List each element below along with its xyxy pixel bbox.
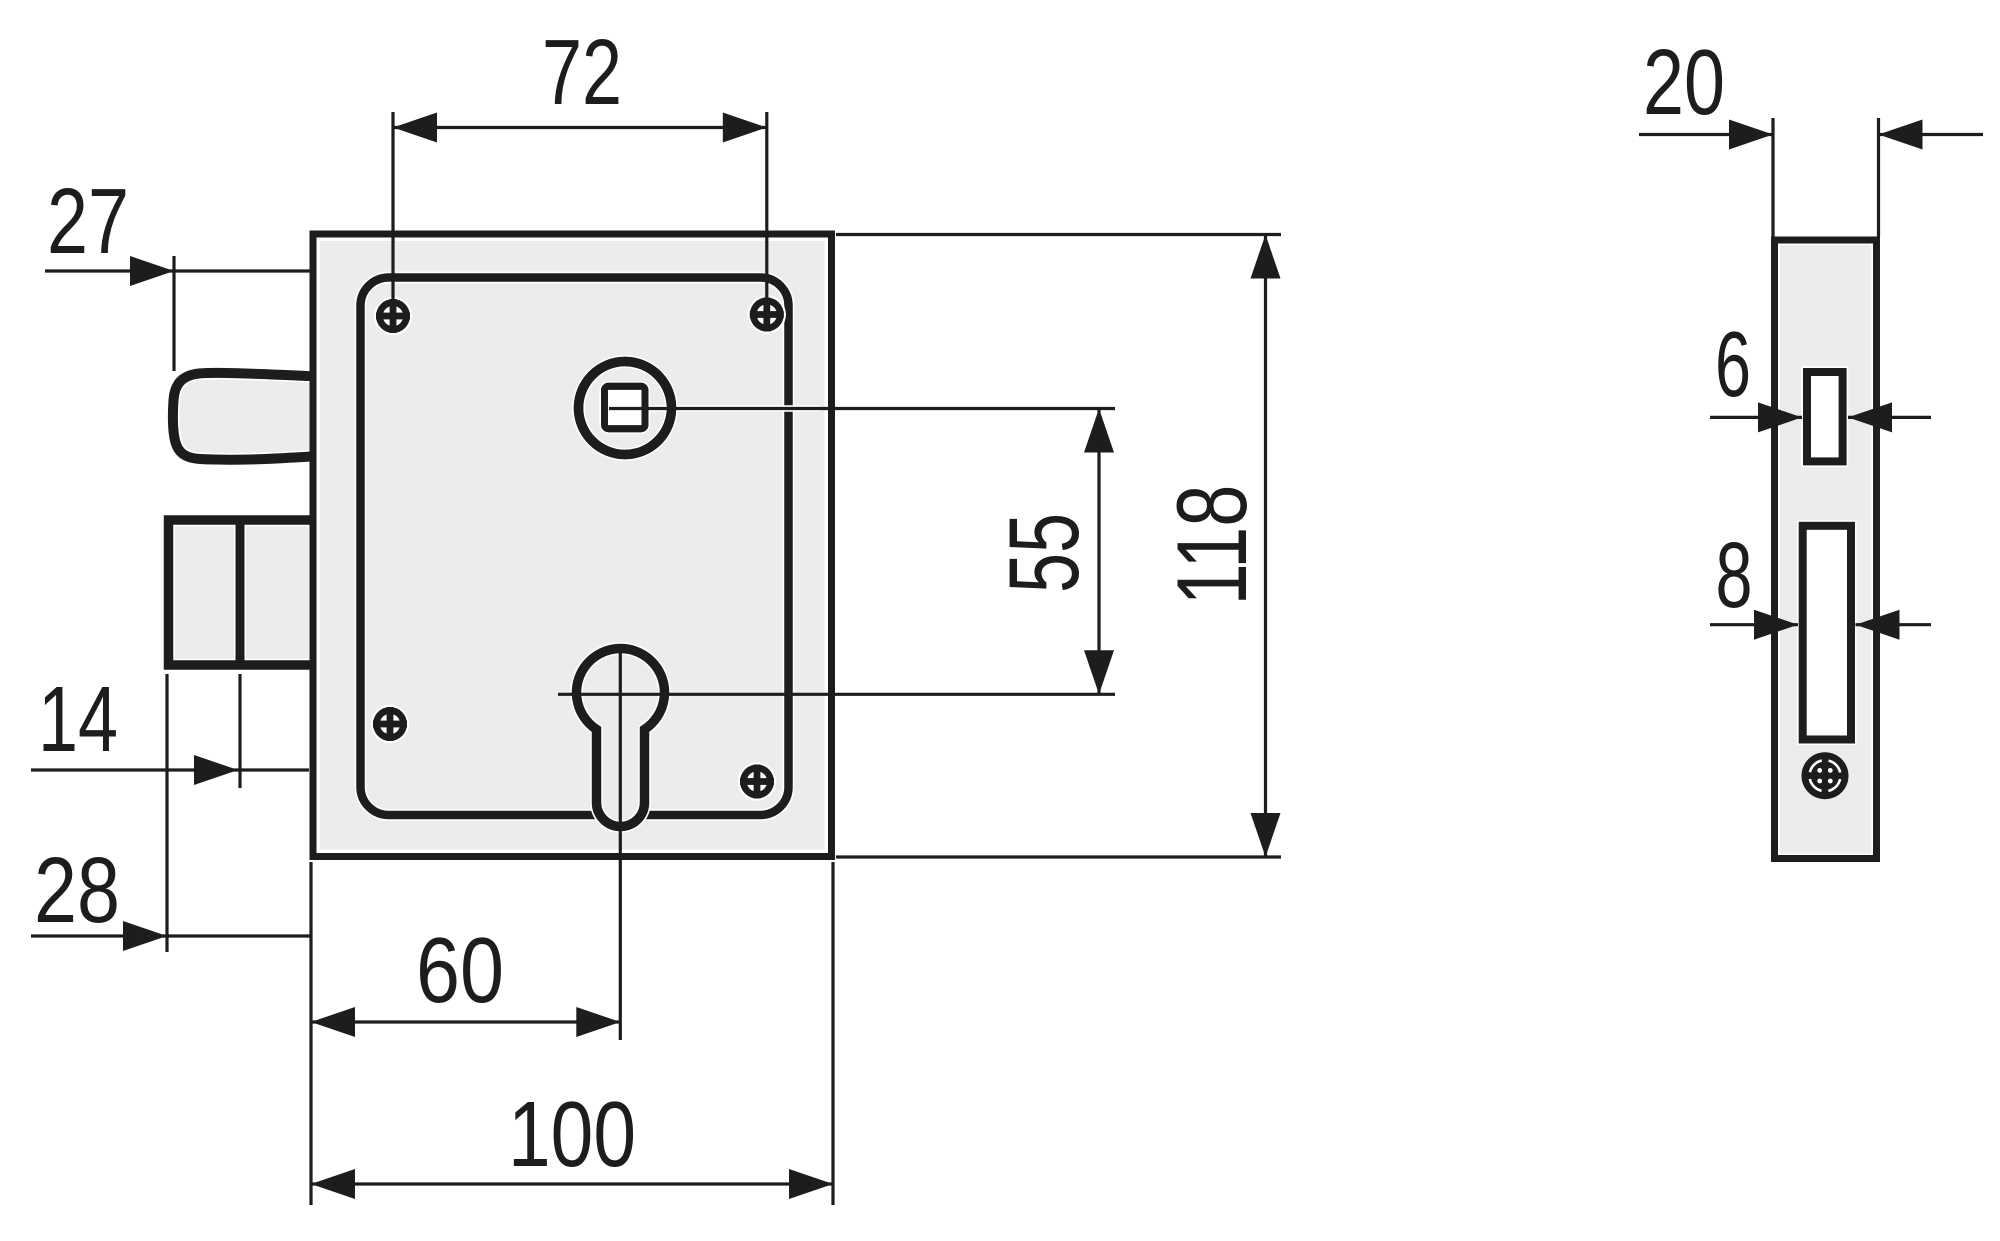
svg-text:20: 20 — [1643, 30, 1725, 134]
dimension 55: extension line bottom from keyhole — [558, 693, 1115, 696]
dimension 8: left line — [1710, 623, 1798, 626]
faceplate square hole (6) — [1807, 372, 1843, 461]
faceplate side view — [1775, 240, 1877, 859]
dimension 100: right arrowhead — [789, 1169, 833, 1199]
dimension 55: top arrowhead — [1084, 409, 1114, 453]
dimension 100: left arrowhead — [311, 1169, 355, 1199]
dimension 6: left line — [1710, 416, 1802, 419]
dimension 14: extension line left — [165, 674, 168, 952]
svg-text:6: 6 — [1715, 312, 1751, 416]
screw top-right — [748, 295, 786, 333]
dimension 72: left arrowhead — [393, 113, 437, 143]
deadbolt divider — [234, 526, 246, 659]
svg-text:100: 100 — [508, 1082, 636, 1186]
screw top-left — [374, 297, 412, 335]
dimension 14: arrowhead — [194, 755, 238, 785]
dimension 28: arrowhead — [123, 921, 167, 951]
dimension 118: extension line bottom from body — [836, 855, 1281, 858]
screw bottom-left — [371, 705, 409, 743]
dimension 27: dimension line — [45, 269, 311, 272]
dimension 8: left arrowhead — [1754, 610, 1798, 640]
deadbolt — [169, 520, 316, 665]
dimension 14: dimension line — [31, 768, 309, 771]
svg-text:8: 8 — [1716, 523, 1753, 627]
cover plate — [361, 278, 789, 816]
spindle follower circle — [579, 362, 672, 455]
dimension 8: right arrowhead — [1856, 610, 1900, 640]
dimension 60: left arrowhead — [311, 1007, 355, 1037]
svg-text:118: 118 — [1156, 485, 1267, 606]
svg-text:55: 55 — [988, 513, 1099, 593]
dimension 72: right arrowhead — [723, 113, 767, 143]
spindle follower restroke — [579, 362, 672, 455]
dimension 6: left arrowhead — [1758, 402, 1802, 432]
dimension 8: right line — [1856, 623, 1932, 626]
dimension 20: left line — [1639, 133, 1773, 136]
dimension 55: dimension line — [1097, 409, 1100, 695]
lock body — [313, 234, 832, 857]
dimension 118: extension line top from body — [836, 233, 1281, 236]
dimension 14: extension line right — [238, 674, 241, 788]
dimension 55: extension line top from follower — [609, 405, 820, 411]
dimension 72: extension line left — [391, 112, 394, 300]
dimension 118: dimension line — [1264, 235, 1267, 858]
dimension 20: extension line right — [1877, 118, 1880, 237]
dimension 27: arrowhead — [130, 256, 174, 286]
dimension 60: extension line right through keyhole — [619, 646, 622, 1040]
svg-text:60: 60 — [416, 918, 504, 1022]
dimension 118: top arrowhead — [1251, 235, 1281, 279]
dimension 100: extension line right below body — [831, 862, 834, 1205]
svg-text:27: 27 — [47, 169, 129, 273]
dimension 6: right line — [1848, 416, 1931, 419]
dimension 27: extension line — [172, 256, 175, 371]
latch bolt — [173, 373, 318, 460]
faceplate screw — [1802, 752, 1849, 799]
dimension 100: dimension line — [311, 1182, 833, 1185]
svg-text:28: 28 — [34, 838, 120, 942]
dimension 72: dimension line — [393, 126, 767, 129]
dimension 72: extension line right — [765, 112, 768, 298]
dimension 60: right arrowhead — [576, 1007, 620, 1037]
dimension 20: extension line left — [1771, 118, 1774, 237]
dimension 20: right line — [1879, 133, 1984, 136]
dimension 6: right arrowhead — [1848, 402, 1892, 432]
svg-text:14: 14 — [38, 667, 118, 771]
dimension 118: bottom arrowhead — [1251, 813, 1281, 857]
dimension 28: dimension line — [31, 934, 311, 937]
dimension 60: extension line left below body — [309, 862, 312, 1205]
faceplate bolt slot (8) — [1803, 526, 1851, 740]
dimension 20: left arrowhead — [1729, 120, 1773, 150]
screw bottom-right — [738, 762, 776, 800]
dimension 60: dimension line — [311, 1020, 620, 1023]
dimension 55: bottom arrowhead — [1084, 650, 1114, 694]
spindle square hole — [605, 386, 646, 428]
dimension 20: right arrowhead — [1879, 120, 1923, 150]
keyhole euro profile — [577, 649, 665, 827]
svg-text:72: 72 — [542, 20, 622, 124]
